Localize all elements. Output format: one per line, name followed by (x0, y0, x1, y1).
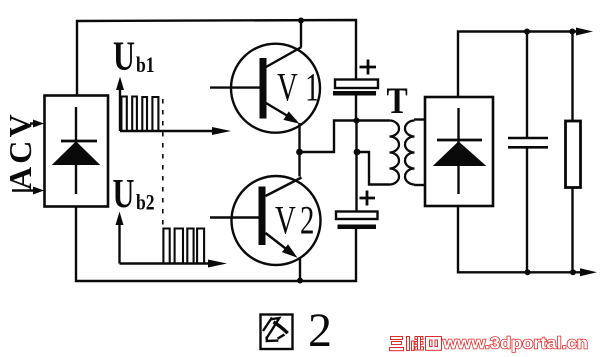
wire secondary bottom to rectifier (414, 184, 425, 186)
svg-text:T: T (387, 81, 408, 122)
wire midpoint to primary top (300, 121, 390, 153)
svg-text:V: V (275, 198, 296, 243)
watermark 三维网 (390, 337, 442, 351)
svg-text:U: U (113, 171, 135, 216)
svg-text:2: 2 (300, 198, 314, 243)
resistor R load (566, 32, 581, 273)
arrow output minus terminal (580, 268, 597, 276)
arrow output plus terminal (576, 28, 593, 36)
transformer T primary winding (390, 121, 400, 185)
wire cap midpoint to primary bottom (357, 152, 390, 185)
capacitor C2 (bottom half-bridge) (336, 191, 378, 230)
transistor V2 (210, 176, 321, 265)
wire left side down (76, 207, 356, 282)
caption glyph 图 (261, 315, 293, 350)
diode D2 (434, 108, 485, 194)
svg-text:U: U (113, 33, 135, 78)
label V1 (277, 65, 319, 110)
label Ub1 (113, 33, 155, 78)
rectifier U1 box (AC input rectifier) (45, 96, 109, 207)
wire V2 emitter to bottom rail (299, 257, 301, 281)
node V2 emitter / bottom rail junction (297, 278, 303, 284)
node C3 bottom junction (525, 269, 531, 275)
svg-text:V: V (277, 65, 298, 110)
label V2 (275, 198, 314, 243)
svg-text:www.3dportal.cn: www.3dportal.cn (442, 334, 588, 353)
node capacitor midpoint junction (354, 149, 361, 156)
transistor V1 (210, 44, 320, 133)
svg-text:2: 2 (308, 304, 332, 357)
svg-text:b2: b2 (136, 191, 155, 215)
svg-text:b1: b1 (136, 53, 155, 77)
node top-rail/V1-collector junction (298, 18, 304, 24)
waveform Ub1 axes (116, 77, 231, 136)
wire capacitor midpoint (355, 121, 357, 212)
wire dashed phase line (162, 99, 164, 226)
arrow AC input top (30, 120, 44, 128)
waveform Ub2 pulses (163, 229, 204, 264)
wire transistor midpoint (298, 123, 300, 177)
node transistor midpoint junction (296, 149, 303, 156)
wire output top rail (458, 32, 578, 98)
capacitor C3 (output filter) (508, 32, 548, 273)
wire V1 collector to top rail (300, 20, 302, 47)
waveform Ub1 pulses (121, 97, 158, 132)
node C3 top junction (524, 29, 530, 35)
waveform Ub2 axes (116, 212, 228, 268)
capacitor C1 (top half-bridge) (333, 60, 378, 121)
svg-text:1: 1 (305, 65, 319, 110)
label Ub2 (113, 171, 155, 216)
node R bottom junction (570, 269, 576, 275)
wire secondary top to rectifier (414, 118, 425, 120)
arrow AC input bottom (12, 187, 44, 195)
transformer T secondary winding (405, 121, 415, 185)
node crossover junction (354, 118, 360, 124)
wire output bottom rail (458, 206, 582, 272)
diode D1 (53, 107, 99, 194)
node R top junction (569, 29, 575, 35)
rectifier U2 box (output rectifier) (425, 97, 493, 206)
wire top rail left (77, 20, 356, 96)
